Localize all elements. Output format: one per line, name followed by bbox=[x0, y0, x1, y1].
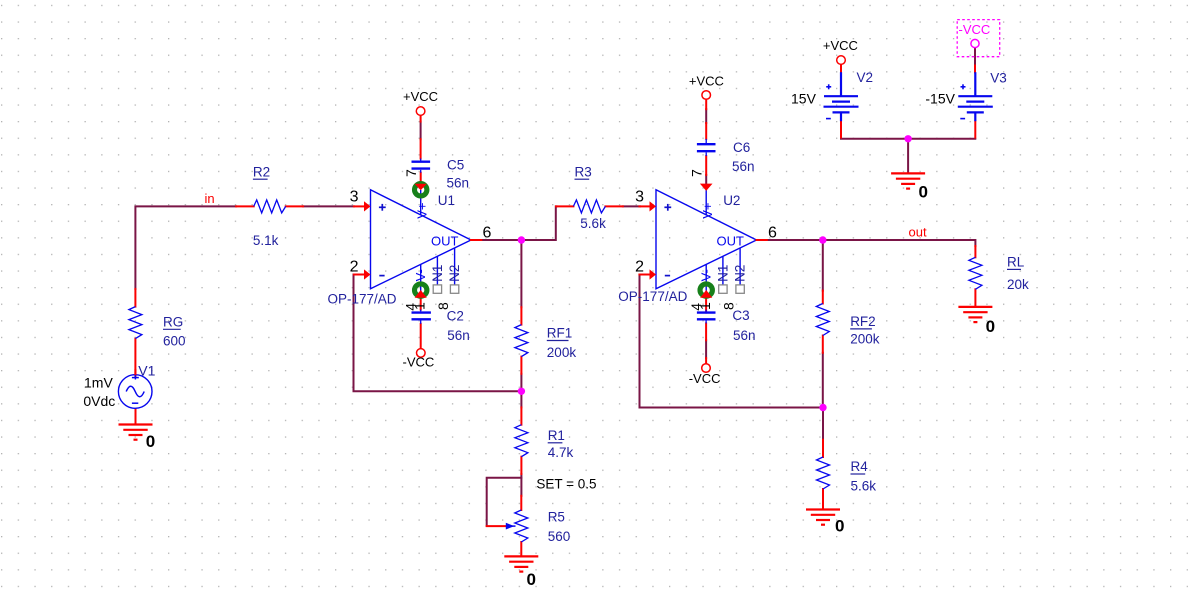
svg-text:out: out bbox=[909, 225, 927, 240]
svg-text:15V: 15V bbox=[791, 91, 817, 107]
svg-text:2: 2 bbox=[350, 259, 359, 276]
svg-text:SET = 0.5: SET = 0.5 bbox=[536, 477, 596, 492]
svg-text:R1: R1 bbox=[548, 428, 565, 443]
svg-text:OP-177/AD: OP-177/AD bbox=[618, 289, 687, 304]
svg-text:0: 0 bbox=[146, 432, 155, 451]
svg-text:+VCC: +VCC bbox=[823, 38, 858, 53]
svg-text:RF1: RF1 bbox=[547, 326, 573, 341]
svg-text:-VCC: -VCC bbox=[403, 355, 435, 370]
svg-text:5.6k: 5.6k bbox=[851, 479, 877, 494]
svg-text:560: 560 bbox=[548, 529, 571, 544]
svg-text:C2: C2 bbox=[447, 309, 464, 324]
svg-text:RL: RL bbox=[1007, 255, 1025, 270]
svg-text:1mV: 1mV bbox=[84, 374, 113, 390]
svg-text:4.7k: 4.7k bbox=[548, 445, 574, 460]
svg-text:C6: C6 bbox=[733, 140, 750, 155]
svg-text:N1: N1 bbox=[430, 265, 445, 282]
svg-text:C3: C3 bbox=[732, 308, 749, 323]
svg-text:20k: 20k bbox=[1007, 277, 1029, 292]
svg-text:1: 1 bbox=[412, 302, 428, 310]
svg-text:V+: V+ bbox=[414, 203, 429, 219]
svg-text:56n: 56n bbox=[447, 328, 470, 343]
svg-text:R3: R3 bbox=[575, 164, 592, 179]
svg-text:600: 600 bbox=[163, 334, 186, 349]
svg-text:in: in bbox=[205, 191, 215, 206]
svg-text:R4: R4 bbox=[851, 459, 869, 474]
svg-text:V-: V- bbox=[413, 269, 428, 281]
svg-text:RF2: RF2 bbox=[850, 314, 876, 329]
svg-text:0Vdc: 0Vdc bbox=[83, 393, 115, 409]
svg-text:+VCC: +VCC bbox=[689, 74, 724, 89]
svg-text:V3: V3 bbox=[990, 70, 1007, 85]
svg-text:N2: N2 bbox=[447, 265, 462, 282]
svg-text:5.1k: 5.1k bbox=[253, 233, 279, 248]
svg-text:R2: R2 bbox=[253, 164, 270, 179]
svg-text:200k: 200k bbox=[547, 345, 577, 360]
svg-text:V2: V2 bbox=[857, 70, 874, 85]
svg-text:0: 0 bbox=[527, 570, 536, 589]
svg-text:V1: V1 bbox=[138, 363, 155, 379]
svg-text:56n: 56n bbox=[447, 176, 470, 191]
svg-text:6: 6 bbox=[483, 225, 492, 242]
svg-text:-15V: -15V bbox=[925, 91, 955, 107]
svg-text:3: 3 bbox=[350, 188, 359, 205]
svg-text:56n: 56n bbox=[733, 328, 756, 343]
svg-text:56n: 56n bbox=[732, 159, 755, 174]
svg-text:0: 0 bbox=[986, 317, 995, 336]
svg-text:5.6k: 5.6k bbox=[580, 216, 606, 231]
svg-text:OP-177/AD: OP-177/AD bbox=[328, 291, 397, 306]
svg-text:0: 0 bbox=[835, 517, 844, 536]
svg-text:U2: U2 bbox=[723, 193, 740, 208]
svg-text:C5: C5 bbox=[447, 157, 464, 172]
svg-text:7: 7 bbox=[403, 169, 419, 177]
svg-text:+VCC: +VCC bbox=[403, 89, 438, 104]
svg-text:200k: 200k bbox=[850, 331, 880, 346]
svg-text:0: 0 bbox=[919, 183, 928, 202]
svg-text:-VCC: -VCC bbox=[959, 22, 991, 37]
svg-text:OUT: OUT bbox=[431, 234, 459, 249]
svg-text:-VCC: -VCC bbox=[689, 371, 721, 386]
svg-text:RG: RG bbox=[163, 315, 183, 330]
svg-text:U1: U1 bbox=[438, 193, 455, 208]
svg-text:R5: R5 bbox=[548, 510, 565, 525]
